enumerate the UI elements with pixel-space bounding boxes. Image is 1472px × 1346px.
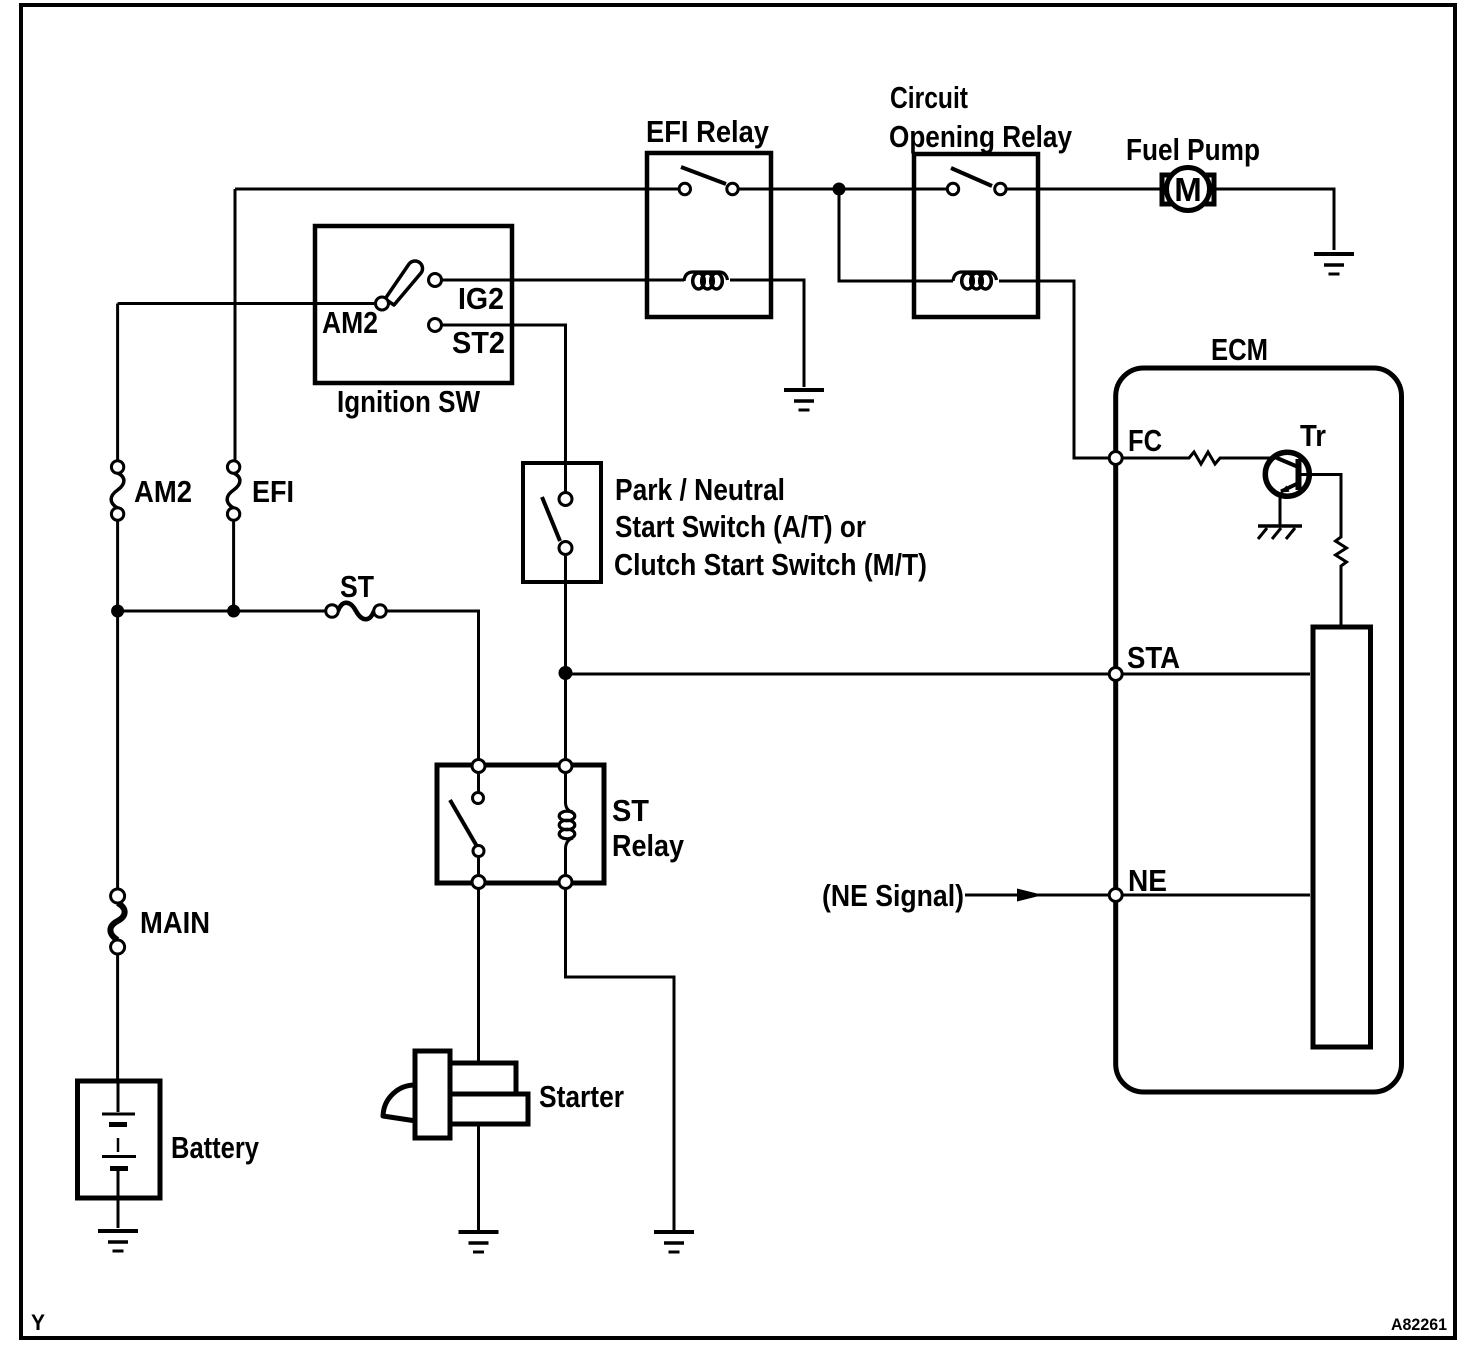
fuel pump motor [1162,168,1214,211]
ground below battery [98,1231,138,1251]
wire junction down to COR coil [839,189,953,281]
svg-text:Start Switch (A/T) or: Start Switch (A/T) or [615,509,866,544]
park/neutral start switch [523,463,601,582]
transistor Tr [1265,452,1309,526]
ECM internal circuit rectangle [1313,627,1371,1047]
wire battery to ground [117,1198,120,1228]
wire STA junction to ECM STA [572,673,1109,676]
ground below starter [459,1232,499,1252]
svg-text:AM2: AM2 [134,474,192,509]
wire COR switch to fuel pump [1006,188,1161,191]
fuse EFI [227,461,240,520]
ECM terminal STA [1109,668,1122,681]
wire STA into ECM block [1122,673,1310,676]
svg-text:Tr: Tr [1300,418,1326,453]
svg-text:ST: ST [612,793,649,828]
wire fuel pump to ground [1216,189,1334,250]
wire ST relay coil to ground [566,888,675,1230]
svg-text:STA: STA [1127,640,1180,675]
svg-text:Park / Neutral: Park / Neutral [615,472,785,507]
wire IG2 to EFI coil [441,279,684,282]
resistor at FC [1122,452,1277,464]
wire EFI relay to junction to COR switch [738,188,947,191]
svg-text:Y: Y [31,1310,45,1335]
ground at fuel pump [1314,254,1354,274]
svg-text:ECM: ECM [1211,332,1268,367]
ignition switch [315,226,512,383]
svg-text:MAIN: MAIN [140,905,210,940]
svg-text:Starter: Starter [539,1079,624,1114]
ECM block [1116,368,1402,1092]
wire bus to ST fuse [118,610,326,613]
svg-text:Opening Relay: Opening Relay [889,119,1073,154]
starter motor [383,1051,528,1138]
ground below EFI relay [784,390,824,410]
wire top feed to EFI relay [235,188,679,191]
svg-text:IG2: IG2 [458,281,504,316]
fuse MAIN [110,889,124,954]
svg-text:Relay: Relay [612,828,685,863]
svg-text:EFI: EFI [252,474,294,509]
svg-text:ST: ST [340,569,374,604]
resistor at transistor collector [1302,475,1347,628]
node junction dot at EFI relay output [833,183,846,196]
wire vertical AM2 fuse to MAIN fuse [116,520,119,889]
ground hatched at transistor emitter [1258,526,1302,539]
svg-text:A82261: A82261 [1391,1315,1447,1334]
svg-text:Battery: Battery [171,1130,260,1165]
ECM terminal NE [1109,889,1122,902]
wire ST relay to starter [477,888,480,1063]
svg-text:AM2: AM2 [322,305,378,340]
svg-text:M: M [1174,171,1202,208]
wire park/neutral to STA junction to ST relay [564,554,567,760]
wire vertical AM2 branch upper [116,304,119,462]
ground right of starter [654,1232,694,1252]
wire ST fuse to ST relay [386,611,479,760]
svg-text:Ignition SW: Ignition SW [337,384,481,419]
fuse AM2 [111,461,124,520]
fuse ST [326,603,387,620]
wire NE arrow line [965,894,1109,897]
wire EFI coil to ground [730,280,804,387]
wire ST2 to park/neutral switch [441,325,566,492]
battery [78,1081,161,1198]
svg-text:FC: FC [1128,423,1162,458]
node junction dot STA branch [559,666,573,680]
ST relay [437,760,604,889]
svg-text:Circuit: Circuit [890,80,968,115]
wire AM2 horizontal [118,302,376,305]
wire vertical EFI branch [234,189,237,461]
wire starter to ground [477,1124,480,1230]
NE signal arrowhead [1017,889,1043,902]
node junction dots on bus [111,605,124,618]
svg-text:Fuel Pump: Fuel Pump [1126,132,1260,167]
svg-text:EFI Relay: EFI Relay [646,114,770,149]
wire MAIN fuse to battery [116,954,119,1081]
wire NE into ECM block [1122,894,1310,897]
EFI relay U1 [647,153,771,317]
svg-text:ST2: ST2 [452,325,505,360]
wire COR coil to ECM FC [999,281,1109,458]
ECM terminal FC [1109,452,1122,465]
svg-text:Clutch Start Switch (M/T): Clutch Start Switch (M/T) [614,547,927,582]
svg-text:NE: NE [1128,863,1167,898]
svg-text:(NE Signal): (NE Signal) [822,878,964,913]
circuit opening relay [914,154,1038,317]
